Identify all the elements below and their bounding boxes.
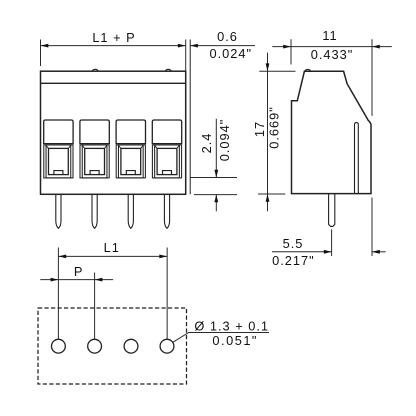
clamp unit 1 outer window bbox=[46, 145, 71, 178]
side view top mold bump bbox=[305, 69, 311, 71]
clamp unit 2 inner window bbox=[85, 148, 105, 174]
dim L1 dimension line bbox=[58, 255, 167, 257]
dim L1+P left extension line bbox=[40, 40, 42, 67]
dim 11 left extension line bbox=[290, 39, 292, 64]
clamp unit 4 inner window bbox=[157, 148, 177, 174]
svg-text:2.4: 2.4 bbox=[199, 133, 214, 154]
svg-text:5.5: 5.5 bbox=[283, 236, 304, 251]
dim 17 dimension line bbox=[267, 53, 269, 212]
svg-text:0.051": 0.051" bbox=[212, 333, 258, 348]
front view end wall line bbox=[189, 40, 191, 195]
clamp unit 1 wire tab bbox=[54, 171, 63, 175]
svg-text:L1: L1 bbox=[104, 240, 120, 255]
front view top mold bump 1 bbox=[92, 69, 98, 71]
clamp unit 3 left wedge bbox=[118, 145, 120, 148]
front pin 4 bbox=[164, 195, 169, 229]
dim 2.4 dimension line bbox=[215, 119, 217, 178]
dim 0.6 tail line bbox=[190, 45, 255, 47]
dim 5.5 dimension line left tail bbox=[272, 251, 332, 253]
clamp unit 1 inner window bbox=[49, 148, 69, 174]
dim 5.5 right extension line bbox=[371, 198, 373, 257]
arrowhead L1 right bbox=[159, 255, 167, 259]
arrowhead L1 left bbox=[58, 255, 66, 259]
front pin 3 bbox=[128, 195, 133, 229]
clamp unit 1 top block bbox=[44, 120, 73, 144]
svg-text:Ø 1.3 + 0.1: Ø 1.3 + 0.1 bbox=[194, 318, 269, 333]
dim 11 right extension line bbox=[371, 39, 373, 116]
dim L1 right extension line bbox=[166, 248, 168, 340]
arrowhead P right (outside pointing left) bbox=[95, 278, 103, 282]
front view body upper rib line bbox=[41, 82, 186, 84]
dim L1+P dimension line bbox=[41, 45, 186, 47]
dim 5.5 dimension line right tail bbox=[372, 251, 386, 253]
clamp unit 2 wire tab bbox=[90, 171, 99, 175]
arrowhead P left (outside pointing right) bbox=[51, 278, 59, 282]
arrowhead 11 right (outside pointing left) bbox=[372, 45, 380, 49]
clamp unit 2 module wall bbox=[80, 145, 109, 178]
hole circle 1 bbox=[52, 339, 66, 353]
hole circle 2 bbox=[88, 339, 102, 353]
clamp unit 3 outer window bbox=[118, 145, 143, 178]
clamp unit 1 right wedge bbox=[68, 145, 70, 148]
dim 2.4 bottom extension line bbox=[194, 194, 237, 196]
side view pin bbox=[329, 194, 335, 227]
svg-text:11: 11 bbox=[322, 28, 337, 43]
front view top mold bump 2 bbox=[165, 69, 171, 71]
dim 5.5 pin centre extension line bbox=[331, 229, 333, 256]
clamp unit 2 left wedge bbox=[82, 145, 84, 148]
svg-text:0.669": 0.669" bbox=[267, 106, 282, 149]
clamp unit 3 right wedge bbox=[141, 145, 143, 148]
arrowhead L1+P right bbox=[178, 44, 186, 48]
arrowhead L1+P left bbox=[41, 44, 49, 48]
clamp unit 1 left wedge bbox=[46, 145, 48, 148]
dim P dimension line with tails bbox=[40, 279, 113, 281]
arrowhead 2.4 bottom (outside pointing up) bbox=[214, 195, 218, 203]
arrowhead 0.6 right (outside) bbox=[190, 44, 198, 48]
arrowhead 5.5 left (pointing right at pin centre) bbox=[324, 250, 332, 254]
clamp unit 2 outer window bbox=[82, 145, 107, 178]
svg-text:0.6: 0.6 bbox=[217, 29, 238, 44]
clamp unit 1 module wall bbox=[44, 145, 73, 178]
svg-text:0.433": 0.433" bbox=[311, 47, 354, 62]
dim L1 left extension line bbox=[57, 248, 59, 340]
front pin 1 bbox=[56, 195, 61, 229]
dim 2.4 lower tail bbox=[215, 195, 217, 212]
front view body outline bbox=[41, 71, 186, 194]
clamp unit 4 top block bbox=[152, 120, 181, 144]
clamp unit 4 module wall bbox=[152, 145, 181, 178]
dim L1+P right extension line (body right edge extended) bbox=[185, 40, 187, 72]
clamp unit 4 right wedge bbox=[177, 145, 179, 148]
svg-text:0.024": 0.024" bbox=[210, 46, 253, 61]
clamp unit 2 right wedge bbox=[105, 145, 107, 148]
arrowhead 11 left (outside pointing right) bbox=[283, 45, 291, 49]
clamp unit 3 inner window bbox=[121, 148, 141, 174]
clamp unit 4 wire tab bbox=[163, 171, 172, 175]
front pin 2 bbox=[92, 195, 97, 229]
clamp unit 3 wire tab bbox=[126, 171, 135, 175]
clamp unit 4 left wedge bbox=[155, 145, 157, 148]
svg-text:P: P bbox=[74, 264, 84, 279]
dim 17 top extension line bbox=[259, 70, 295, 72]
clamp unit 4 outer window bbox=[155, 145, 180, 178]
svg-text:L1 + P: L1 + P bbox=[92, 30, 135, 45]
side view body outline bbox=[292, 71, 372, 193]
side view wire slot bbox=[355, 123, 359, 194]
dim 11 dimension line bbox=[272, 46, 392, 48]
svg-text:0.217": 0.217" bbox=[272, 253, 315, 268]
clamp unit 2 top block bbox=[80, 120, 109, 144]
dim 2.4 top extension line bbox=[190, 177, 237, 179]
dim 17 bottom extension line bbox=[258, 193, 285, 195]
clamp unit 3 module wall bbox=[116, 145, 145, 178]
svg-text:17: 17 bbox=[252, 121, 267, 137]
svg-text:0.094": 0.094" bbox=[217, 119, 232, 162]
clamp unit 3 top block bbox=[116, 120, 145, 144]
arrowhead 5.5 right (outside pointing left) bbox=[372, 250, 380, 254]
hole circle 4 bbox=[160, 339, 174, 353]
arrowhead 17 bottom (outside pointing up) bbox=[266, 194, 270, 202]
diameter leader line bbox=[173, 333, 269, 343]
hole circle 3 bbox=[124, 339, 138, 353]
drill plan dashed outline bbox=[38, 308, 187, 384]
dim P right extension line bbox=[94, 273, 96, 340]
arrowhead 17 top (outside pointing down) bbox=[266, 63, 270, 71]
arrowhead 2.4 top (outside pointing down) bbox=[214, 170, 218, 178]
